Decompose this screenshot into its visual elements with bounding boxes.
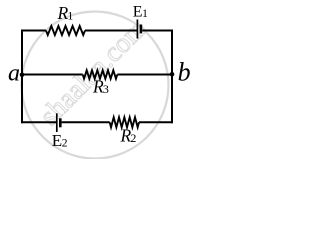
wire bottom-right segment [139, 121, 172, 123]
battery E2 short plate [59, 118, 62, 127]
wire top-right segment [142, 30, 172, 32]
resistor R1 [46, 26, 85, 35]
wire bottom-left segment [22, 121, 56, 123]
node b dot [170, 72, 175, 77]
battery E1 short plate [140, 25, 143, 34]
node a dot [20, 73, 25, 78]
wire top-middle segment [85, 30, 137, 32]
battery E1 long plate [136, 20, 138, 39]
wire middle-right segment [117, 74, 172, 76]
wire middle-left segment [22, 74, 83, 76]
svg-text:a: a [8, 61, 20, 87]
wire right vertical [171, 30, 173, 124]
resistor R3 [83, 70, 118, 78]
wire left vertical [21, 30, 23, 124]
battery E2 long plate [56, 113, 58, 132]
watermark circle outer [22, 12, 169, 159]
wire top-left segment [22, 30, 46, 32]
resistor R2 [110, 117, 139, 127]
wire bottom-middle segment [62, 121, 110, 123]
svg-text:b: b [178, 57, 191, 86]
